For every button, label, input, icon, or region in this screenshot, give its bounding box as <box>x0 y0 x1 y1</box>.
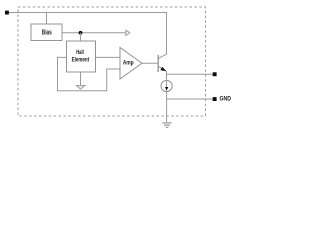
Bias box <box>31 24 62 41</box>
transistor Q1 (NPN) base bar <box>157 55 159 72</box>
op-amp Amp triangle <box>120 48 142 80</box>
svg-text:Bias: Bias <box>42 30 52 37</box>
svg-text:Element: Element <box>72 56 90 63</box>
terminal VCC (input pin, top-left) <box>5 11 9 15</box>
terminal OUT <box>213 72 217 76</box>
svg-text:Amp: Amp <box>123 60 134 67</box>
current source internal line <box>166 81 168 91</box>
terminal GND <box>213 97 217 101</box>
current source I1 circle <box>161 80 172 91</box>
current source arrowhead <box>165 87 168 91</box>
wire: ground line to GND terminal <box>167 98 213 100</box>
wire: current source to ground <box>166 92 168 122</box>
transistor emitter lead with arrow <box>158 66 165 71</box>
wire: Hall left output routed below to amp lower input <box>58 57 121 90</box>
wire: rail down to Bias box <box>46 13 48 25</box>
junction dot on bias line <box>79 31 83 35</box>
wire: Bias output to the right <box>62 32 126 34</box>
wire: Hall element bottom lead <box>80 72 82 85</box>
wire: output line to OUT terminal <box>167 73 213 75</box>
svg-text:GND: GND <box>220 96 232 103</box>
wire: junction down to Hall element <box>80 33 82 41</box>
open arrowhead on bias line <box>126 30 130 35</box>
ground symbol <box>162 123 171 127</box>
Hall Element box <box>67 41 96 72</box>
dashed IC boundary box <box>18 7 206 116</box>
wire: emitter down to current source <box>166 71 168 81</box>
open down arrowhead (hall ground arrow) <box>76 85 85 89</box>
svg-text:Hall: Hall <box>76 49 84 56</box>
transistor collector lead <box>158 54 166 58</box>
wire: Hall right output to amp upper input <box>96 56 121 58</box>
wire: amp output to transistor base <box>142 62 158 64</box>
wire: top supply rail from VCC terminal to collector drop <box>9 13 167 55</box>
